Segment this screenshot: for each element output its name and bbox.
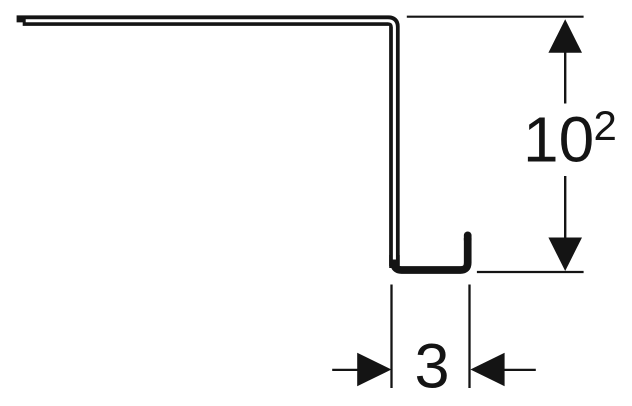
wire: dimension line upper segment [564, 51, 566, 104]
arrow up (vertical dimension) [548, 19, 582, 53]
J-hook at bottom (single thick stroke) [394, 238, 468, 270]
svg-text:2: 2 [594, 102, 617, 149]
white notch at left end under hem [13, 22, 23, 28]
corner merge filler at bottom of vertical leg [389, 255, 400, 268]
wire: left extension line of bottom dimension [390, 285, 392, 389]
wire: dimension line lower segment [564, 176, 566, 239]
wire: left arrow tail [332, 369, 358, 371]
wire: right arrow tail [504, 369, 536, 371]
arrow right-pointing (left side of "3" dimension) [357, 353, 391, 386]
profile outline (sheet metal, thick black band) [17, 21, 395, 266]
wire: top extension line [407, 16, 584, 18]
svg-text:3: 3 [415, 331, 450, 401]
wire: right extension line of bottom dimension [468, 285, 470, 389]
arrow down (vertical dimension) [548, 238, 582, 272]
J-hook upturned tip with rounded cap [464, 235, 472, 240]
svg-text:10: 10 [523, 104, 594, 176]
wire: bottom-right extension line [477, 271, 584, 273]
white inner gap of sheet outline [26, 21, 395, 260]
arrow left-pointing (right side of "3" dimension) [470, 353, 504, 386]
